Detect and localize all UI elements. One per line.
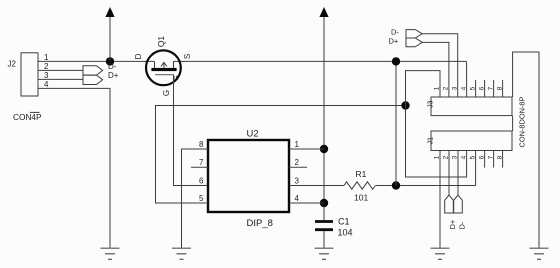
port flag D+ left [83, 75, 103, 84]
svg-text:D-: D- [108, 62, 117, 71]
svg-text:D+: D+ [108, 71, 119, 80]
transistor Q1 [134, 36, 192, 97]
node junction dot U2 pin4 [320, 199, 328, 207]
ground below U2 pin8 [172, 248, 191, 259]
wire J1 pin3 to flag [457, 151, 459, 195]
svg-text:DIP_8: DIP_8 [247, 218, 273, 229]
power arrow center [319, 7, 328, 221]
svg-text:D+: D+ [448, 219, 457, 229]
svg-text:5: 5 [469, 86, 476, 90]
svg-text:4: 4 [460, 155, 467, 159]
svg-text:4: 4 [295, 194, 300, 203]
port flag D- bottom [454, 195, 463, 213]
svg-text:3: 3 [452, 86, 459, 90]
svg-text:D-: D- [391, 28, 399, 37]
node junction dot on bus B [401, 101, 409, 109]
ground left [101, 248, 120, 259]
svg-text:8: 8 [496, 155, 503, 159]
svg-text:8: 8 [496, 86, 503, 90]
port flag D+ bottom [445, 195, 454, 213]
svg-text:2: 2 [295, 158, 300, 167]
svg-text:2: 2 [44, 62, 49, 71]
svg-text:D-: D- [458, 221, 467, 229]
port flag D- top right [406, 30, 422, 38]
wire J2 pin4 to ground [38, 88, 110, 248]
resistor R1 [344, 169, 376, 203]
wire J2 pin2 [38, 69, 83, 71]
pin 7 stub U2 [191, 166, 208, 168]
svg-text:8: 8 [199, 140, 204, 149]
node junction dot at J2 pin1 [106, 57, 114, 65]
svg-text:R1: R1 [356, 169, 367, 179]
capacitor C1 [315, 217, 353, 249]
wire J1 pin2 to flag [448, 151, 450, 195]
svg-text:CON-8DON-8P: CON-8DON-8P [518, 96, 527, 147]
wire Q1 S to J3 pin4 [174, 60, 467, 62]
ground below J1 pin1 [431, 248, 450, 259]
power arrow left [105, 7, 114, 61]
port flag D- left [83, 66, 103, 75]
svg-text:Q1: Q1 [156, 36, 166, 48]
svg-text:U2: U2 [247, 129, 259, 140]
svg-text:D: D [134, 53, 143, 59]
svg-text:1: 1 [44, 53, 49, 62]
wire D- flag to J3 pin3 [422, 34, 457, 97]
pin 2 stub U2 [289, 166, 307, 168]
connector J1 [427, 131, 512, 168]
svg-text:6: 6 [199, 176, 204, 185]
svg-text:J1: J1 [427, 137, 434, 145]
wire bus A vertical [395, 61, 397, 185]
svg-text:4: 4 [460, 86, 467, 90]
wire U2 pin5 to J3 pin1 net [156, 106, 406, 204]
wire U2 pin8 to ground [182, 149, 209, 248]
wire U2 pin1 to bus [289, 148, 324, 150]
svg-text:3: 3 [44, 71, 49, 80]
shell outline CON-8DON-8P [513, 52, 539, 248]
svg-text:G: G [173, 75, 180, 80]
svg-text:4: 4 [44, 80, 49, 89]
svg-text:1: 1 [434, 86, 441, 90]
wire J2 pin1 / +5V net [38, 60, 155, 62]
svg-text:5: 5 [199, 194, 204, 203]
svg-text:3: 3 [295, 176, 300, 185]
op-amp U2 [199, 129, 299, 230]
svg-text:D+: D+ [389, 36, 399, 45]
wire U2 pin4 to bus [289, 202, 324, 204]
svg-text:101: 101 [354, 193, 368, 203]
svg-text:2: 2 [443, 86, 450, 90]
wire U2 pin3 to R1 [289, 185, 344, 187]
svg-text:C1: C1 [338, 217, 350, 227]
node junction dot bus A bottom [392, 181, 400, 189]
svg-text:G: G [162, 90, 171, 96]
wire J1 pin1 to ground [439, 151, 441, 249]
svg-text:104: 104 [338, 228, 353, 238]
svg-text:7: 7 [487, 86, 494, 90]
ground below C1 [315, 248, 334, 259]
port flag D+ top right [406, 38, 422, 47]
node junction dot U2 pin1 [320, 145, 328, 153]
svg-text:6: 6 [478, 86, 485, 90]
wire R1 to J1 pin5 [376, 185, 476, 187]
label CON4P [13, 112, 42, 122]
wire J2 pin3 [38, 78, 83, 80]
wire J1 pin5 stub [475, 151, 477, 186]
wire J3 pin4 stub [466, 61, 468, 97]
svg-text:S: S [183, 54, 192, 59]
svg-text:J2: J2 [8, 60, 17, 69]
svg-text:7: 7 [199, 158, 204, 167]
ground bottom right [530, 248, 549, 259]
connector J3 [427, 80, 512, 116]
svg-text:1: 1 [295, 140, 300, 149]
connector J2 [8, 53, 50, 96]
node junction dot bus A top [392, 57, 400, 65]
wire gate of Q1 to U2 pin6 [174, 75, 209, 186]
wire D+ flag to J3 pin2 [422, 42, 449, 97]
wire bus B: J3 pin1 to J1 pin4 [406, 71, 467, 177]
svg-text:6: 6 [478, 155, 485, 159]
svg-text:7: 7 [487, 155, 494, 159]
svg-text:J3: J3 [427, 100, 434, 108]
svg-text:CON4P: CON4P [13, 112, 42, 122]
